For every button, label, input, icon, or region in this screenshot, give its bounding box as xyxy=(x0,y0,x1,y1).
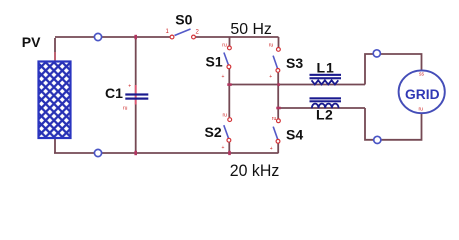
svg-text:ru: ru xyxy=(123,106,128,112)
svg-text:PV: PV xyxy=(22,34,41,50)
svg-text:S1: S1 xyxy=(206,54,223,70)
svg-text:ru: ru xyxy=(419,107,424,113)
svg-text:ru: ru xyxy=(269,43,274,49)
svg-text:L1: L1 xyxy=(317,60,335,76)
svg-text:ss: ss xyxy=(419,72,425,78)
svg-text:50 Hz: 50 Hz xyxy=(230,21,272,38)
svg-text:ru: ru xyxy=(272,116,277,122)
svg-text:S0: S0 xyxy=(175,11,192,27)
svg-text:S2: S2 xyxy=(205,124,222,140)
svg-text:L2: L2 xyxy=(316,107,333,123)
svg-text:+: + xyxy=(128,83,131,89)
svg-text:GRID: GRID xyxy=(405,87,440,102)
svg-text:S3: S3 xyxy=(286,55,303,71)
svg-text:S4: S4 xyxy=(286,127,303,143)
svg-text:+: + xyxy=(270,146,273,152)
svg-text:20 kHz: 20 kHz xyxy=(230,161,279,180)
svg-text:ru: ru xyxy=(222,42,227,48)
svg-text:ru: ru xyxy=(223,113,228,119)
svg-text:+: + xyxy=(222,74,225,80)
svg-text:+: + xyxy=(269,74,272,80)
svg-text:+: + xyxy=(222,145,225,151)
svg-text:C1: C1 xyxy=(105,85,123,101)
